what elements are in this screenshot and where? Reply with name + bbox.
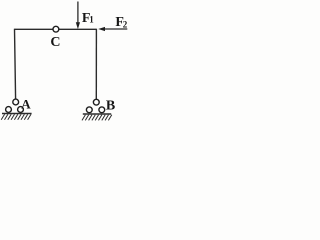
support A ground line <box>2 113 32 115</box>
support A ground hatching <box>1 114 31 120</box>
svg-text:A: A <box>21 97 31 112</box>
hinge C (pin circle on beam) <box>53 26 59 32</box>
label F2 <box>115 15 127 30</box>
support B pin circle <box>93 99 99 105</box>
label F1 <box>82 11 94 26</box>
force F2 arrow (horizontal, pointing left at top right corner) <box>98 27 127 31</box>
support B left roller circle <box>86 107 92 113</box>
support A pin circle <box>13 99 19 105</box>
svg-text:1: 1 <box>89 15 94 25</box>
support B ground line <box>83 113 111 115</box>
svg-text:2: 2 <box>123 20 128 30</box>
support A left roller circle <box>6 107 12 113</box>
force F1 arrow (vertical, pointing down onto beam) <box>76 2 80 30</box>
support B right roller circle <box>99 107 105 113</box>
support B ground hatching <box>82 115 112 121</box>
left column (member from corner down to support A) <box>15 29 16 100</box>
svg-text:C: C <box>50 35 60 50</box>
svg-text:B: B <box>106 99 115 114</box>
support A right roller circle <box>18 107 24 113</box>
beam (top horizontal member) <box>14 28 96 30</box>
right column (member from corner down to support B) <box>95 29 97 100</box>
